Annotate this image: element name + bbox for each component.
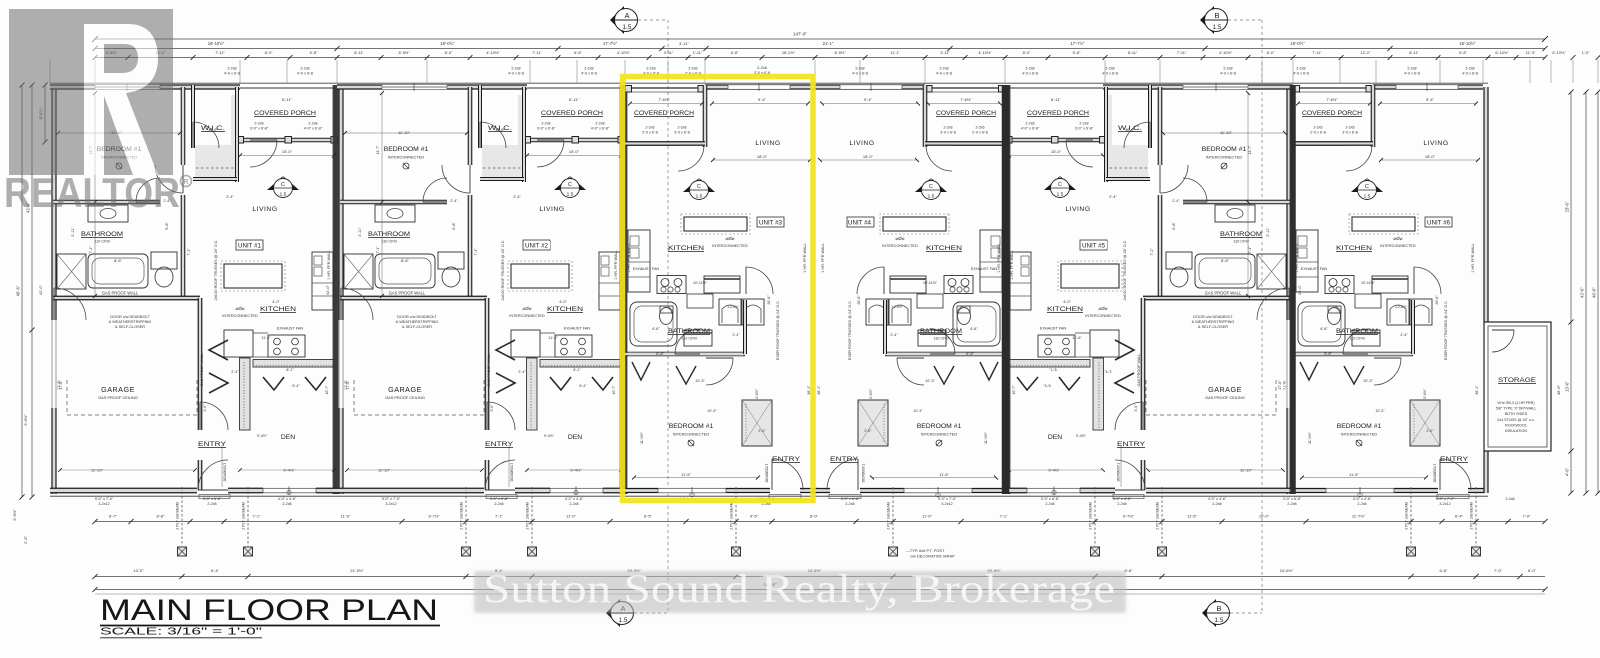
svg-text:COVERED PORCH: COVERED PORCH — [541, 110, 603, 117]
svg-text:2'-4": 2'-4" — [226, 195, 234, 199]
svg-text:46'-6": 46'-6" — [1592, 287, 1597, 298]
svg-text:46'-6": 46'-6" — [16, 285, 21, 296]
svg-text:EXER ROOF TRUSSES @ 24" O.C.: EXER ROOF TRUSSES @ 24" O.C. — [776, 300, 780, 360]
svg-text:DEN: DEN — [1048, 434, 1062, 441]
svg-text:⌀Ø⌀: ⌀Ø⌀ — [1394, 236, 1403, 241]
svg-text:7'-11": 7'-11" — [215, 50, 225, 55]
svg-text:4'-10½": 4'-10½" — [1219, 50, 1233, 55]
svg-text:1 HR. FFR WALL: 1 HR. FFR WALL — [997, 243, 1001, 272]
svg-text:10'-0": 10'-0" — [1259, 514, 1270, 519]
svg-text:3'-0" x 6'-8": 3'-0" x 6'-8" — [1075, 127, 1094, 131]
svg-text:2'-0": 2'-0" — [864, 429, 872, 433]
svg-text:3'-6½": 3'-6½" — [869, 388, 873, 399]
svg-text:9'-4": 9'-4" — [1426, 97, 1435, 102]
svg-text:BATHROOM: BATHROOM — [668, 328, 710, 335]
svg-text:7'-11": 7'-11" — [532, 50, 542, 55]
svg-text:GAS PROOF CEILING: GAS PROOF CEILING — [385, 395, 425, 400]
svg-text:2'-4": 2'-4" — [1400, 333, 1408, 337]
svg-text:C: C — [1058, 182, 1062, 188]
svg-text:8'-5½": 8'-5½" — [399, 50, 411, 55]
svg-text:ENTRY: ENTRY — [198, 441, 227, 448]
svg-text:2-2x8: 2-2x8 — [282, 502, 291, 506]
svg-text:17'-8": 17'-8" — [1278, 380, 1282, 390]
svg-text:2-2x8: 2-2x8 — [1025, 122, 1034, 126]
svg-text:4'-0 x 6'-8: 4'-0 x 6'-8 — [936, 72, 952, 76]
svg-text:2-2x8: 2-2x8 — [845, 502, 854, 506]
svg-text:4'-0 x 6'-8: 4'-0 x 6'-8 — [1022, 72, 1038, 76]
svg-text:COVERED PORCH: COVERED PORCH — [936, 110, 996, 117]
svg-text:DEADBOLT: DEADBOLT — [510, 462, 514, 481]
svg-text:EXHAUST FAN: EXHAUST FAN — [1040, 327, 1067, 331]
svg-text:2'-11": 2'-11" — [358, 227, 362, 237]
svg-text:17'-7½": 17'-7½" — [1070, 41, 1085, 46]
svg-text:2-2x8: 2-2x8 — [678, 126, 687, 130]
svg-text:4'-0" x 6'-8": 4'-0" x 6'-8" — [591, 127, 610, 131]
svg-text:1.5: 1.5 — [280, 192, 287, 198]
svg-text:3'-0" x 6'-8": 3'-0" x 6'-8" — [841, 497, 860, 501]
svg-text:2-2x8: 2-2x8 — [1346, 126, 1355, 130]
svg-text:2'-4": 2'-4" — [732, 333, 740, 337]
svg-text:12'-0": 12'-0" — [1125, 128, 1135, 132]
svg-text:6'-4": 6'-4" — [211, 568, 220, 573]
svg-text:UNIT #6: UNIT #6 — [1427, 220, 1450, 227]
svg-text:2-2x8: 2-2x8 — [1045, 502, 1054, 506]
svg-text:8'-8": 8'-8" — [157, 514, 166, 519]
svg-text:7'-1": 7'-1" — [1150, 248, 1154, 256]
svg-text:11'-5": 11'-5" — [1187, 514, 1197, 519]
svg-text:2'-0": 2'-0" — [1426, 429, 1434, 433]
svg-text:EXHAUST FAN: EXHAUST FAN — [564, 327, 591, 331]
svg-text:11'-7½": 11'-7½" — [1352, 514, 1366, 519]
svg-text:5'-8": 5'-8" — [1459, 50, 1467, 55]
svg-text:3'-11": 3'-11" — [664, 50, 674, 55]
svg-text:4'-0 x 6'-8: 4'-0 x 6'-8 — [1220, 72, 1236, 76]
svg-text:INTERCONNECTED: INTERCONNECTED — [388, 155, 425, 160]
svg-text:KITCHEN: KITCHEN — [547, 306, 583, 313]
svg-text:7'-1": 7'-1" — [495, 514, 504, 519]
svg-text:6'-7": 6'-7" — [109, 514, 118, 519]
svg-text:DEN: DEN — [281, 434, 295, 441]
svg-text:C: C — [1365, 184, 1369, 190]
svg-text:42'-6": 42'-6" — [1580, 287, 1585, 298]
svg-text:4'-0": 4'-0" — [559, 300, 567, 304]
svg-text:9'-4": 9'-4" — [758, 97, 767, 102]
svg-text:110 CFM: 110 CFM — [381, 240, 396, 244]
svg-text:6'-8": 6'-8" — [970, 327, 978, 331]
svg-text:15'-0": 15'-0" — [282, 149, 293, 154]
svg-text:DOOR c/w DEADBOLT: DOOR c/w DEADBOLT — [397, 315, 437, 319]
svg-text:19'-0½": 19'-0½" — [440, 41, 455, 46]
svg-text:4'-0" x 6'-8": 4'-0" x 6'-8" — [1021, 127, 1040, 131]
svg-text:15'-0": 15'-0" — [1051, 149, 1062, 154]
svg-text:2-2x8: 2-2x8 — [308, 122, 317, 126]
svg-text:21'-1": 21'-1" — [823, 41, 834, 46]
svg-text:2'-6": 2'-6" — [23, 535, 28, 544]
svg-text:23'-6": 23'-6" — [1565, 201, 1570, 212]
svg-text:26'-6": 26'-6" — [1435, 295, 1439, 305]
svg-text:2-2x8: 2-2x8 — [569, 502, 578, 506]
svg-text:DOOR c/w DEADBOLT: DOOR c/w DEADBOLT — [1193, 315, 1233, 319]
svg-text:110 CFM: 110 CFM — [1349, 337, 1364, 341]
svg-text:2-2x8: 2-2x8 — [227, 67, 236, 71]
svg-text:GARAGE: GARAGE — [388, 385, 422, 394]
svg-text:11'-0½": 11'-0½" — [984, 431, 988, 444]
svg-text:18'-2½": 18'-2½" — [782, 50, 796, 55]
svg-text:11'-6": 11'-6" — [1072, 336, 1082, 340]
svg-text:2 PLY 2x8 BEAM: 2 PLY 2x8 BEAM — [1089, 502, 1093, 529]
svg-text:MAIN FLOOR PLAN: MAIN FLOOR PLAN — [100, 594, 438, 627]
svg-text:2-2x6: 2-2x6 — [757, 65, 767, 70]
svg-text:R: R — [183, 179, 188, 186]
svg-text:B: B — [1214, 11, 1219, 20]
svg-text:2'-0 x 6'-8: 2'-0 x 6'-8 — [972, 131, 988, 135]
svg-text:INTERCONNECTED: INTERCONNECTED — [222, 314, 258, 318]
svg-text:6'-8": 6'-8" — [652, 327, 660, 331]
svg-text:3'-0" x 6'-8": 3'-0" x 6'-8" — [1041, 497, 1060, 501]
svg-text:UNIT #2: UNIT #2 — [525, 243, 548, 250]
svg-text:6'-10½": 6'-10½" — [1495, 50, 1509, 55]
svg-text:8'-6": 8'-6" — [114, 258, 123, 263]
svg-text:1.5: 1.5 — [567, 192, 574, 198]
svg-text:2-2x6: 2-2x6 — [688, 67, 697, 71]
svg-text:2-2x8: 2-2x8 — [1407, 67, 1416, 71]
svg-text:9'-7½": 9'-7½" — [1123, 514, 1135, 519]
svg-text:3'-0": 3'-0" — [1134, 404, 1138, 412]
svg-text:12'-0": 12'-0" — [208, 128, 218, 132]
svg-text:2 PLY 2x8 BEAM: 2 PLY 2x8 BEAM — [887, 502, 891, 529]
svg-text:18'-10½": 18'-10½" — [1459, 41, 1476, 46]
svg-text:W're SB-3 (1 HR FRR): W're SB-3 (1 HR FRR) — [1497, 401, 1534, 405]
svg-text:INTERCONNECTED: INTERCONNECTED — [1085, 314, 1121, 318]
svg-text:2-2x8: 2-2x8 — [1505, 497, 1514, 501]
svg-text:7'-11": 7'-11" — [1177, 50, 1187, 55]
svg-text:ENTRY: ENTRY — [1117, 441, 1146, 448]
svg-text:7'-0": 7'-0" — [1523, 514, 1532, 519]
svg-text:9'-7½": 9'-7½" — [428, 514, 440, 519]
svg-text:17'-8": 17'-8" — [59, 380, 63, 390]
svg-text:2-2x8: 2-2x8 — [855, 67, 864, 71]
svg-text:C: C — [929, 184, 933, 190]
svg-text:4'-0 x 6'-8: 4'-0 x 6'-8 — [297, 72, 313, 76]
svg-text:2-2x8: 2-2x8 — [1212, 502, 1221, 506]
svg-text:& WEATHERSTRIPPING: & WEATHERSTRIPPING — [396, 320, 439, 324]
svg-text:ENTRY: ENTRY — [485, 441, 514, 448]
svg-text:C: C — [568, 182, 572, 188]
svg-text:6'-11": 6'-11" — [569, 97, 579, 102]
svg-text:DEADBOLT: DEADBOLT — [1433, 463, 1437, 482]
svg-text:3'-0" x 6'-8": 3'-0" x 6'-8" — [1283, 497, 1302, 501]
svg-text:COVERED PORCH: COVERED PORCH — [634, 110, 694, 117]
svg-text:2'-0 x 6'-8: 2'-0 x 6'-8 — [642, 131, 658, 135]
svg-text:1 HR. FFR WALL: 1 HR. FFR WALL — [327, 250, 331, 279]
svg-text:EXER ROOF TRUSSES @ 24" O.C.: EXER ROOF TRUSSES @ 24" O.C. — [848, 300, 852, 360]
svg-text:BEDROOM #1: BEDROOM #1 — [384, 146, 429, 153]
svg-text:2-2x8: 2-2x8 — [595, 122, 604, 126]
svg-text:11'-10": 11'-10" — [91, 468, 104, 473]
svg-text:STORAGE: STORAGE — [1498, 377, 1536, 384]
svg-text:B: B — [1216, 604, 1221, 613]
svg-text:2x6/20 ROOF TRUSSES @ 24" O.C.: 2x6/20 ROOF TRUSSES @ 24" O.C. — [501, 240, 505, 301]
svg-text:c/w DECORATIVE WRAP: c/w DECORATIVE WRAP — [910, 554, 955, 559]
svg-text:2-2x8: 2-2x8 — [511, 67, 520, 71]
svg-text:3'-0" x 6'-8": 3'-0" x 6'-8" — [537, 127, 556, 131]
svg-text:110 CFM: 110 CFM — [681, 337, 696, 341]
svg-text:& WEATHERSTRIPPING: & WEATHERSTRIPPING — [1192, 320, 1235, 324]
svg-text:7'-1": 7'-1" — [1000, 514, 1009, 519]
svg-text:—TYP. 6x6 P.T. POST: —TYP. 6x6 P.T. POST — [906, 548, 945, 553]
svg-text:5'-8": 5'-8" — [731, 50, 739, 55]
svg-text:7'-1": 7'-1" — [1248, 246, 1252, 254]
svg-text:11'-6": 11'-6" — [548, 336, 558, 340]
svg-text:INTERCONNECTED: INTERCONNECTED — [712, 244, 748, 248]
svg-text:BEDROOM #1: BEDROOM #1 — [1202, 146, 1247, 153]
svg-text:3'-0 x 6'-8: 3'-0 x 6'-8 — [940, 131, 956, 135]
svg-text:10'-7": 10'-7" — [325, 385, 329, 395]
svg-text:8'-5½": 8'-5½" — [835, 50, 847, 55]
svg-text:INTERCONNECTED: INTERCONNECTED — [509, 314, 545, 318]
svg-text:3'-6½": 3'-6½" — [1423, 388, 1427, 399]
svg-text:3-2x12: 3-2x12 — [385, 502, 396, 506]
svg-text:GAS PROOF CEILING: GAS PROOF CEILING — [98, 395, 138, 400]
svg-text:BATHROOM: BATHROOM — [920, 328, 962, 335]
svg-text:4'-10½": 4'-10½" — [617, 50, 631, 55]
svg-text:10'-3": 10'-3" — [707, 409, 717, 413]
svg-text:147'-0": 147'-0" — [793, 32, 807, 37]
svg-text:INTERCONNECTED: INTERCONNECTED — [921, 432, 958, 437]
svg-text:UNIT #1: UNIT #1 — [238, 243, 261, 250]
svg-text:4'-10½": 4'-10½" — [486, 50, 500, 55]
svg-text:6'-6": 6'-6" — [574, 50, 582, 55]
svg-text:9'-4½": 9'-4½" — [544, 434, 555, 438]
svg-text:3-2x12: 3-2x12 — [98, 502, 109, 506]
svg-text:7'-6½": 7'-6½" — [960, 97, 972, 102]
svg-text:110 CFM: 110 CFM — [94, 240, 109, 244]
svg-text:13'-0": 13'-0" — [133, 568, 144, 573]
svg-text:4'-0" x 4'-6": 4'-0" x 4'-6" — [1113, 497, 1132, 501]
svg-text:2'-4": 2'-4" — [890, 333, 898, 337]
svg-text:7'-1": 7'-1" — [474, 248, 478, 256]
svg-text:5'-6½": 5'-6½" — [23, 414, 28, 426]
svg-text:4'-0 x 6'-8: 4'-0 x 6'-8 — [581, 72, 597, 76]
svg-text:2-2x8: 2-2x8 — [584, 67, 593, 71]
svg-text:3'-11": 3'-11" — [940, 50, 950, 55]
svg-text:9'-5": 9'-5" — [750, 514, 759, 519]
svg-text:11'-1": 11'-1" — [890, 50, 900, 55]
svg-text:7'-1": 7'-1" — [187, 248, 191, 256]
svg-text:DEN: DEN — [568, 434, 582, 441]
svg-text:11'-7": 11'-7" — [376, 145, 380, 155]
svg-text:11'-5": 11'-5" — [1349, 472, 1359, 477]
svg-text:KITCHEN: KITCHEN — [260, 306, 296, 313]
svg-text:2'-4": 2'-4" — [450, 199, 458, 203]
svg-text:5'-8": 5'-8" — [1073, 50, 1081, 55]
svg-text:1 HR. FFR WALL: 1 HR. FFR WALL — [821, 243, 825, 272]
svg-text:10'-3": 10'-3" — [913, 409, 923, 413]
svg-text:& SELF-CLOSER: & SELF-CLOSER — [1198, 325, 1228, 329]
svg-text:10'-11½": 10'-11½" — [693, 281, 708, 285]
svg-text:2x6/20 ROOF TRUSSES @ 24" O.C.: 2x6/20 ROOF TRUSSES @ 24" O.C. — [214, 240, 218, 301]
svg-text:1 HR. FFR WALL: 1 HR. FFR WALL — [803, 243, 807, 272]
svg-text:42'-0": 42'-0" — [1298, 285, 1302, 295]
svg-text:3'-6½": 3'-6½" — [755, 388, 759, 399]
svg-text:6'-8": 6'-8" — [1320, 327, 1328, 331]
svg-text:SCALE: 3/16" = 1'-0": SCALE: 3/16" = 1'-0" — [100, 626, 262, 638]
svg-text:2'-4": 2'-4" — [1172, 199, 1180, 203]
svg-text:2-2x8: 2-2x8 — [1079, 122, 1088, 126]
svg-text:& SELF-CLOSER: & SELF-CLOSER — [115, 325, 145, 329]
svg-text:KITCHEN: KITCHEN — [1336, 245, 1372, 252]
svg-text:DEADBOLT: DEADBOLT — [861, 463, 865, 482]
svg-text:8'-1": 8'-1" — [1049, 368, 1057, 372]
svg-text:INTERCONNECTED: INTERCONNECTED — [673, 432, 710, 437]
svg-text:GAS PROOF WALL: GAS PROOF WALL — [487, 354, 491, 387]
svg-text:8'-6": 8'-6" — [1221, 258, 1230, 263]
svg-text:7'-1": 7'-1" — [376, 246, 380, 254]
svg-text:21'-0½": 21'-0½" — [350, 568, 364, 573]
svg-text:2 PLY 2x8 BEAM: 2 PLY 2x8 BEAM — [1156, 502, 1160, 529]
svg-text:24'-6½": 24'-6½" — [1280, 568, 1294, 573]
svg-text:2'-0": 2'-0" — [758, 429, 766, 433]
svg-text:8'-0": 8'-0" — [810, 514, 819, 519]
svg-text:2-2x8: 2-2x8 — [1105, 67, 1114, 71]
svg-text:2-2x8: 2-2x8 — [944, 126, 953, 130]
svg-text:4'-0 x 6'-8: 4'-0 x 6'-8 — [224, 72, 240, 76]
svg-text:3'-11": 3'-11" — [679, 41, 689, 46]
svg-text:2 PLY 2x8 BEAM: 2 PLY 2x8 BEAM — [460, 502, 464, 529]
svg-text:5/8" TYPE 'X' DRYWALL: 5/8" TYPE 'X' DRYWALL — [1496, 407, 1537, 411]
svg-text:2'-4": 2'-4" — [231, 370, 239, 374]
svg-text:1.2-6½": 1.2-6½" — [891, 305, 904, 309]
svg-text:8'-6": 8'-6" — [401, 258, 410, 263]
svg-text:2-2x8: 2-2x8 — [1296, 67, 1305, 71]
svg-text:11'-0": 11'-0" — [922, 514, 932, 519]
svg-text:1.5: 1.5 — [1215, 617, 1224, 624]
svg-text:11'-0½": 11'-0½" — [640, 431, 644, 444]
svg-text:17'-7½": 17'-7½" — [603, 41, 618, 46]
svg-text:1'-11": 1'-11" — [693, 50, 703, 55]
svg-text:10'-7": 10'-7" — [612, 385, 616, 395]
svg-text:5'-8": 5'-8" — [452, 222, 456, 230]
svg-text:EXHAUST FAN: EXHAUST FAN — [1301, 267, 1328, 271]
svg-text:9'-4½": 9'-4½" — [570, 468, 582, 473]
svg-text:11'-7": 11'-7" — [1248, 145, 1252, 155]
svg-text:UNIT #4: UNIT #4 — [848, 220, 871, 227]
svg-text:8'-0": 8'-0" — [265, 50, 273, 55]
svg-text:INSULATION: INSULATION — [1505, 429, 1527, 433]
svg-text:KITCHEN: KITCHEN — [668, 245, 704, 252]
svg-text:2-2x6: 2-2x6 — [1314, 126, 1323, 130]
svg-text:6'-0": 6'-0" — [1528, 568, 1537, 573]
svg-text:3'-0": 3'-0" — [203, 404, 207, 412]
svg-text:4'-6": 4'-6" — [1565, 467, 1570, 476]
svg-text:11'-10": 11'-10" — [378, 468, 391, 473]
svg-text:2 PLY 2x8 BEAM: 2 PLY 2x8 BEAM — [242, 502, 246, 529]
svg-text:⌀Ø⌀: ⌀Ø⌀ — [523, 306, 532, 311]
svg-text:36'-1": 36'-1" — [817, 385, 821, 395]
svg-text:6'-11": 6'-11" — [282, 97, 292, 102]
svg-text:KITCHEN: KITCHEN — [926, 245, 962, 252]
svg-text:2x6/20 ROOF TRUSSES @ 24" O.C.: 2x6/20 ROOF TRUSSES @ 24" O.C. — [1123, 240, 1127, 301]
svg-text:110 CFM: 110 CFM — [933, 337, 948, 341]
svg-text:DEADBOLT: DEADBOLT — [223, 462, 227, 481]
svg-text:7'-11": 7'-11" — [1312, 50, 1322, 55]
svg-text:GAS PROOF CEILING: GAS PROOF CEILING — [1205, 395, 1245, 400]
svg-text:42'-0": 42'-0" — [39, 285, 43, 295]
svg-text:BEDROOM #1: BEDROOM #1 — [1337, 423, 1382, 430]
svg-text:4'-0 x 6'-8: 4'-0 x 6'-8 — [508, 72, 524, 76]
svg-text:2 PLY 2x8 BEAM: 2 PLY 2x8 BEAM — [1470, 502, 1474, 529]
svg-text:4'-0" x 6'-8": 4'-0" x 6'-8" — [304, 127, 323, 131]
svg-text:1.5: 1.5 — [1364, 194, 1371, 200]
svg-text:BATHROOM: BATHROOM — [1336, 328, 1378, 335]
svg-text:11'-0½": 11'-0½" — [1308, 431, 1312, 444]
svg-text:LIVING: LIVING — [755, 140, 780, 147]
svg-text:& SELF-CLOSER: & SELF-CLOSER — [402, 325, 432, 329]
svg-text:8'-1": 8'-1" — [573, 368, 581, 372]
svg-text:2-2x6: 2-2x6 — [976, 126, 985, 130]
svg-text:3-2x12: 3-2x12 — [1439, 502, 1450, 506]
svg-text:8'-11": 8'-11" — [1409, 50, 1419, 55]
svg-text:2-2x8: 2-2x8 — [1287, 502, 1296, 506]
svg-text:EXHAUST FAN: EXHAUST FAN — [971, 267, 998, 271]
svg-text:EXER ROOF TRUSSES @ 24" O.C.: EXER ROOF TRUSSES @ 24" O.C. — [1444, 300, 1448, 360]
svg-text:8'-11": 8'-11" — [1128, 50, 1138, 55]
svg-text:9'-0" x 7'-0": 9'-0" x 7'-0" — [382, 497, 401, 501]
svg-text:1.2-6½": 1.2-6½" — [727, 305, 740, 309]
svg-text:4'-0" x 4'-6": 4'-0" x 4'-6" — [565, 497, 584, 501]
svg-text:2'-4": 2'-4" — [518, 370, 526, 374]
svg-text:2'-11": 2'-11" — [1266, 227, 1270, 237]
svg-text:46'-6": 46'-6" — [1556, 384, 1561, 395]
svg-text:⌀Ø⌀: ⌀Ø⌀ — [236, 306, 245, 311]
svg-text:LIVING: LIVING — [1423, 140, 1448, 147]
svg-text:18'-10½": 18'-10½" — [208, 41, 225, 46]
svg-text:7'-1": 7'-1" — [89, 246, 93, 254]
svg-text:9'-0" x 7'-0": 9'-0" x 7'-0" — [938, 497, 957, 501]
svg-text:4'-0 x 6'-8: 4'-0 x 6'-8 — [1293, 72, 1309, 76]
svg-text:2'-4": 2'-4" — [513, 195, 521, 199]
svg-text:2-2x6: 2-2x6 — [646, 126, 655, 130]
svg-text:C: C — [697, 184, 701, 190]
svg-text:9'-4½": 9'-4½" — [1076, 434, 1087, 438]
svg-text:2-2x8: 2-2x8 — [1117, 502, 1126, 506]
svg-text:EXHAUST FAN: EXHAUST FAN — [633, 267, 660, 271]
svg-text:2'-4": 2'-4" — [1104, 370, 1112, 374]
svg-text:2-2x8: 2-2x8 — [300, 67, 309, 71]
svg-text:11'-10": 11'-10" — [398, 130, 411, 135]
svg-text:3'-0" x 6'-8": 3'-0" x 6'-8" — [490, 497, 509, 501]
svg-text:4'-0" x 4'-6": 4'-0" x 4'-6" — [1353, 497, 1372, 501]
svg-text:5'-8": 5'-8" — [1172, 222, 1176, 230]
svg-text:2-2x8: 2-2x8 — [939, 67, 948, 71]
svg-text:7'-6½": 7'-6½" — [1326, 97, 1338, 102]
svg-text:3'-0": 3'-0" — [490, 404, 494, 412]
svg-text:6'-8": 6'-8" — [656, 352, 664, 356]
svg-text:9'-4½": 9'-4½" — [257, 434, 268, 438]
svg-text:2-2x8: 2-2x8 — [494, 502, 503, 506]
svg-text:2 PLY 2x8 BEAM: 2 PLY 2x8 BEAM — [176, 502, 180, 529]
svg-text:BATHROOM: BATHROOM — [81, 231, 123, 238]
svg-text:LIVING: LIVING — [1065, 206, 1090, 213]
svg-text:INTERCONNECTED: INTERCONNECTED — [1341, 432, 1378, 437]
svg-text:3'-0" x 6'-8": 3'-0" x 6'-8" — [203, 497, 222, 501]
svg-text:3'-0" x 6'-8": 3'-0" x 6'-8" — [250, 127, 269, 131]
svg-text:2-2x8: 2-2x8 — [1223, 67, 1232, 71]
svg-text:10'-3": 10'-3" — [1375, 409, 1385, 413]
svg-text:4'-0 x 6'-8: 4'-0 x 6'-8 — [1102, 72, 1118, 76]
svg-text:UNIT #3: UNIT #3 — [759, 220, 782, 227]
svg-text:C: C — [281, 182, 285, 188]
